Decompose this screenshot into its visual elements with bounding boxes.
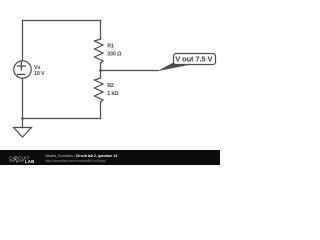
node junction dot (output node) <box>99 69 102 72</box>
wire output node to flag tail <box>101 70 159 72</box>
resistor R2 <box>95 78 104 102</box>
voltage source Vs circle <box>14 61 31 78</box>
svg-text:R2: R2 <box>107 83 114 89</box>
wire bottom horizontal rail <box>23 118 101 120</box>
node flag tail <box>157 63 190 71</box>
svg-text:V out 7.5 V: V out 7.5 V <box>175 55 213 64</box>
ground stem <box>22 119 24 128</box>
wire corner down to R1 top <box>100 21 102 40</box>
resistor R1 <box>95 39 104 63</box>
node flag box V out 7.5 V <box>174 54 216 65</box>
svg-text:1 kΩ: 1 kΩ <box>107 91 119 97</box>
CircuitLab logo <box>0 150 44 166</box>
footer credits text <box>45 154 117 163</box>
footer bar <box>0 150 220 166</box>
svg-text:R1: R1 <box>107 44 114 50</box>
wire top horizontal <box>23 20 101 22</box>
ground junction dot <box>21 117 24 120</box>
ground triangle <box>14 128 32 138</box>
svg-text:LAB: LAB <box>25 159 35 164</box>
wire R2 bottom to bottom rail <box>100 102 102 119</box>
wire Vs top to top-left corner <box>22 21 24 61</box>
wire R1 bottom to node <box>100 63 102 78</box>
svg-text:330 Ω: 330 Ω <box>107 52 122 58</box>
svg-text:10 V: 10 V <box>34 71 45 77</box>
voltage source minus sign <box>18 73 25 75</box>
voltage source plus sign <box>18 62 26 70</box>
wire Vs bottom to ground node <box>22 78 24 118</box>
